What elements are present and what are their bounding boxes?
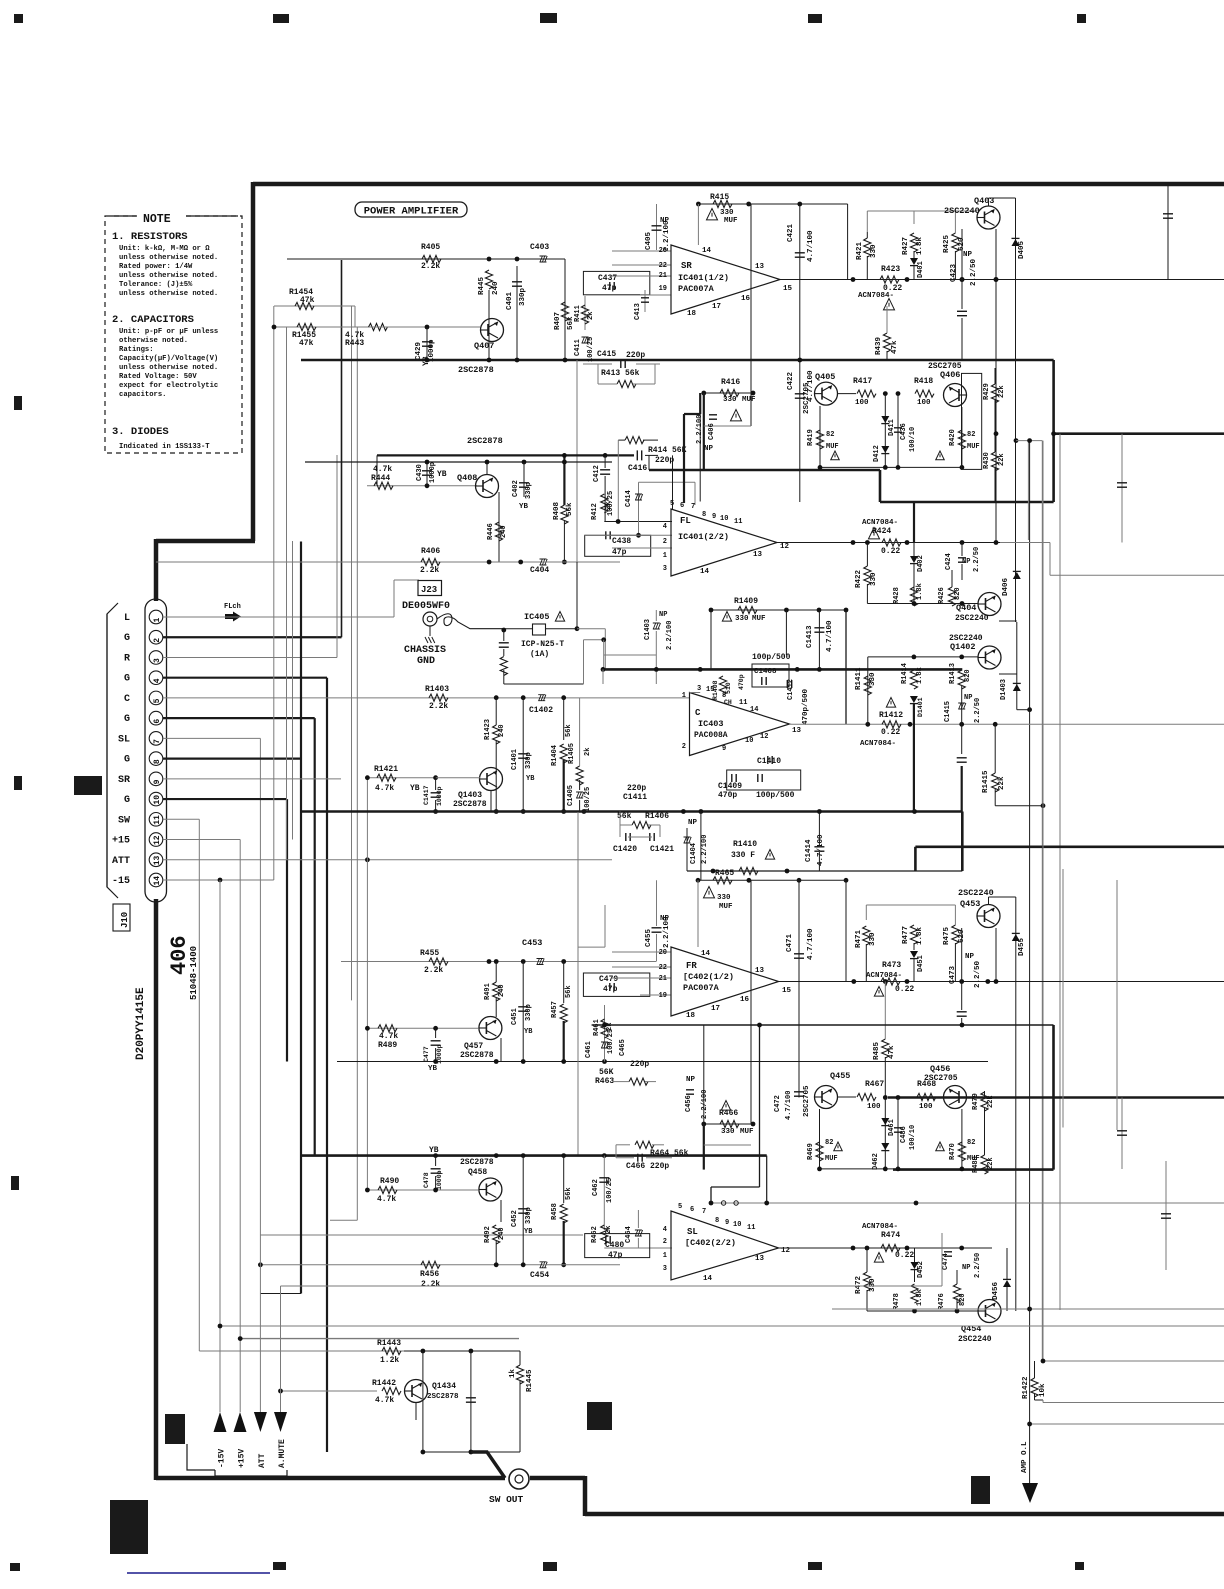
svg-text:56k: 56k (565, 1187, 573, 1200)
svg-text:C401: C401 (506, 291, 514, 310)
svg-text:15: 15 (783, 285, 793, 293)
svg-text:2SC2705: 2SC2705 (803, 382, 811, 414)
svg-text:R1411: R1411 (855, 667, 863, 690)
svg-text:C478: C478 (423, 1172, 430, 1188)
svg-text:FLch: FLch (224, 603, 241, 611)
svg-text:PAC007A: PAC007A (678, 284, 715, 294)
svg-text:otherwise noted.: otherwise noted. (119, 337, 188, 345)
svg-text:4.7k: 4.7k (379, 1032, 398, 1041)
svg-text:R428: R428 (893, 587, 901, 604)
svg-text:330p: 330p (525, 752, 533, 769)
svg-text:R1443: R1443 (377, 1339, 401, 1348)
svg-text:R407: R407 (554, 312, 562, 330)
svg-text:4.7k: 4.7k (377, 1195, 396, 1204)
svg-text:J23: J23 (421, 585, 437, 595)
svg-text:C1420: C1420 (613, 845, 637, 854)
svg-text:2.2k: 2.2k (421, 1280, 440, 1289)
svg-text:C455: C455 (645, 928, 653, 947)
svg-text:C438: C438 (612, 537, 631, 546)
svg-text:R413 56k: R413 56k (601, 369, 640, 378)
svg-text:YB: YB (428, 1065, 438, 1073)
svg-text:56k: 56k (565, 724, 573, 737)
svg-text:0.22: 0.22 (881, 728, 900, 737)
svg-text:SL: SL (687, 1227, 698, 1237)
svg-text:4.7/100: 4.7/100 (826, 620, 834, 652)
svg-text:1. RESISTORS: 1. RESISTORS (112, 231, 188, 243)
svg-text:8: 8 (715, 1217, 719, 1225)
svg-text:C472: C472 (774, 1095, 782, 1112)
svg-text:R472: R472 (855, 1275, 863, 1294)
svg-text:1000p: 1000p (429, 462, 437, 483)
svg-text:R492: R492 (484, 1226, 492, 1243)
svg-text:13: 13 (755, 1255, 765, 1263)
svg-text:C486: C486 (900, 1126, 908, 1143)
svg-text:Q405: Q405 (815, 372, 835, 382)
svg-text:C414: C414 (625, 490, 633, 507)
svg-text:SW OUT: SW OUT (489, 1494, 524, 1505)
svg-text:[C402(2/2): [C402(2/2) (685, 1238, 736, 1248)
svg-text:IC403: IC403 (698, 719, 724, 729)
svg-text:4.7/100: 4.7/100 (817, 834, 825, 866)
svg-text:220p: 220p (626, 351, 645, 360)
svg-text:C1415: C1415 (944, 701, 952, 722)
svg-text:R1415: R1415 (982, 770, 990, 793)
svg-text:C1404: C1404 (690, 843, 698, 864)
svg-text:1.8k: 1.8k (916, 236, 924, 255)
svg-text:22k: 22k (987, 1095, 995, 1108)
svg-text:2SC2240: 2SC2240 (955, 614, 989, 623)
svg-text:NOTE: NOTE (143, 213, 171, 226)
svg-text:C480: C480 (605, 1241, 624, 1250)
svg-text:2k: 2k (584, 748, 592, 756)
svg-text:AMP O.L: AMP O.L (1021, 1441, 1029, 1473)
svg-text:R1414: R1414 (901, 663, 909, 684)
svg-text:2SC2240: 2SC2240 (944, 206, 980, 216)
svg-text:19: 19 (659, 285, 667, 293)
svg-text:2SC2878: 2SC2878 (467, 436, 503, 446)
svg-text:NP: NP (964, 694, 972, 702)
svg-text:18: 18 (687, 310, 697, 318)
svg-text:Unit: k-kΩ, M-MΩ or Ω: Unit: k-kΩ, M-MΩ or Ω (119, 245, 210, 253)
svg-text:1: 1 (682, 692, 686, 700)
svg-text:NP: NP (704, 445, 714, 453)
svg-text:R1408: R1408 (712, 680, 719, 700)
svg-text:2SC2240: 2SC2240 (949, 634, 983, 643)
svg-text:2: 2 (663, 538, 667, 546)
svg-text:MUF: MUF (967, 443, 980, 451)
svg-text:C430: C430 (416, 464, 424, 481)
svg-text:Q1402: Q1402 (950, 642, 976, 652)
svg-text:R446: R446 (487, 523, 495, 540)
svg-text:R444: R444 (371, 474, 390, 483)
svg-text:R463: R463 (595, 1077, 614, 1086)
svg-text:ACN7084-: ACN7084- (866, 972, 902, 980)
svg-text:R406: R406 (421, 547, 440, 556)
svg-text:R456: R456 (420, 1270, 439, 1279)
svg-text:2.2/100: 2.2/100 (701, 1090, 709, 1119)
svg-text:C1401: C1401 (511, 749, 519, 770)
svg-text:13: 13 (753, 551, 763, 559)
svg-text:82: 82 (967, 431, 975, 439)
svg-text:C411: C411 (574, 339, 582, 356)
svg-text:R1422: R1422 (1022, 1376, 1030, 1399)
svg-text:13: 13 (755, 967, 765, 975)
svg-text:R1421: R1421 (374, 765, 398, 774)
svg-text:R425: R425 (943, 234, 951, 253)
svg-text:D452: D452 (917, 1261, 925, 1278)
svg-text:2.2/100: 2.2/100 (666, 621, 674, 650)
svg-text:R423: R423 (881, 265, 900, 274)
svg-text:D1403: D1403 (1000, 679, 1008, 700)
svg-text:GND: GND (417, 656, 435, 667)
svg-text:C465: C465 (619, 1039, 627, 1056)
svg-text:R419: R419 (807, 429, 815, 446)
svg-text:expect for electrolytic: expect for electrolytic (119, 382, 218, 390)
svg-text:C: C (124, 694, 130, 705)
svg-text:2k: 2k (605, 1226, 613, 1234)
svg-text:Capacity(μF)/Voltage(V): Capacity(μF)/Voltage(V) (119, 355, 218, 363)
svg-text:NP: NP (688, 819, 698, 827)
svg-text:D401: D401 (917, 261, 925, 278)
svg-text:Tolerance: (J)±5%: Tolerance: (J)±5% (119, 281, 193, 289)
svg-text:100/10: 100/10 (909, 427, 917, 452)
svg-text:330p: 330p (525, 1004, 533, 1021)
svg-text:R408: R408 (553, 501, 561, 520)
svg-text:9: 9 (722, 745, 726, 753)
svg-text:47k: 47k (300, 296, 315, 305)
svg-text:6: 6 (690, 1206, 694, 1214)
svg-text:D462: D462 (872, 1153, 880, 1170)
svg-text:240: 240 (498, 724, 506, 737)
svg-text:240: 240 (500, 525, 508, 538)
svg-text:DE005WF0: DE005WF0 (402, 601, 450, 612)
svg-text:C1413: C1413 (806, 625, 814, 648)
svg-text:Q408: Q408 (457, 473, 477, 483)
svg-text:A.MUTE: A.MUTE (278, 1439, 287, 1468)
svg-text:C423: C423 (950, 263, 958, 282)
svg-text:C1403: C1403 (644, 619, 652, 640)
svg-text:C413: C413 (634, 303, 642, 320)
svg-text:unless otherwise noted.: unless otherwise noted. (119, 364, 218, 372)
svg-text:ICP-N25-T: ICP-N25-T (521, 640, 564, 649)
svg-text:SL: SL (118, 734, 130, 745)
svg-text:1.8k: 1.8k (916, 667, 924, 684)
svg-text:R462: R462 (591, 1226, 599, 1243)
svg-text:R414 56K: R414 56K (648, 446, 687, 455)
svg-text:IC401(1/2): IC401(1/2) (678, 273, 729, 283)
svg-text:SR: SR (118, 775, 130, 786)
svg-text:-15V: -15V (218, 1449, 227, 1468)
svg-text:2.2/100: 2.2/100 (663, 916, 671, 948)
svg-text:SW: SW (118, 815, 130, 826)
svg-text:1000p: 1000p (428, 339, 436, 362)
svg-text:R405: R405 (421, 243, 440, 252)
svg-text:4: 4 (663, 523, 667, 531)
svg-text:240: 240 (498, 984, 506, 997)
svg-text:C451: C451 (511, 1008, 519, 1025)
svg-text:6: 6 (153, 719, 162, 724)
svg-text:R476: R476 (938, 1293, 946, 1310)
svg-text:IC405: IC405 (524, 612, 550, 622)
svg-text:82: 82 (825, 1139, 833, 1147)
svg-text:R461: R461 (593, 1019, 601, 1036)
svg-text:Rated Voltage: 50V: Rated Voltage: 50V (119, 373, 197, 381)
svg-text:330p: 330p (525, 1207, 533, 1224)
svg-text:330: 330 (870, 244, 878, 258)
svg-text:0.22: 0.22 (881, 547, 900, 556)
svg-text:FL: FL (680, 516, 691, 526)
svg-text:1000p: 1000p (436, 786, 443, 806)
svg-text:2: 2 (663, 1238, 667, 1246)
svg-text:100: 100 (867, 1103, 881, 1111)
svg-text:R421: R421 (856, 241, 864, 260)
svg-text:R429: R429 (983, 383, 991, 400)
svg-text:R1445: R1445 (526, 1369, 534, 1392)
svg-text:12: 12 (780, 543, 790, 551)
svg-text:2SC2705: 2SC2705 (924, 1074, 958, 1083)
svg-text:240: 240 (498, 1227, 506, 1240)
svg-text:11: 11 (747, 1224, 755, 1232)
svg-text:2SC2240: 2SC2240 (958, 1335, 992, 1344)
svg-text:Q1434: Q1434 (432, 1382, 456, 1391)
svg-text:C406: C406 (708, 423, 716, 440)
svg-text:12: 12 (153, 835, 162, 845)
svg-text:240: 240 (492, 281, 500, 295)
svg-text:330: 330 (869, 672, 877, 686)
svg-text:C412: C412 (593, 465, 601, 482)
svg-text:MUF: MUF (719, 903, 733, 911)
svg-text:C477: C477 (423, 1046, 430, 1062)
svg-text:0.22: 0.22 (895, 985, 914, 994)
svg-text:10: 10 (745, 737, 753, 745)
svg-text:R471: R471 (855, 929, 863, 948)
svg-text:ACN7084-: ACN7084- (860, 740, 896, 748)
svg-text:Q457: Q457 (464, 1042, 483, 1051)
svg-text:R458: R458 (551, 1203, 559, 1220)
svg-text:Q406: Q406 (940, 370, 960, 380)
svg-text:18: 18 (686, 1012, 696, 1020)
svg-text:10k: 10k (1039, 1383, 1047, 1397)
svg-text:unless otherwise noted.: unless otherwise noted. (119, 272, 218, 280)
svg-text:56k: 56k (565, 985, 573, 998)
svg-text:2.2/50: 2.2/50 (974, 698, 982, 723)
svg-text:8: 8 (702, 511, 706, 519)
svg-text:100/25: 100/25 (607, 1029, 615, 1054)
svg-text:22k: 22k (998, 385, 1006, 398)
svg-text:R465: R465 (715, 869, 734, 878)
svg-text:4: 4 (663, 1226, 667, 1234)
svg-text:R412: R412 (591, 503, 599, 520)
svg-text:14: 14 (701, 950, 711, 958)
svg-text:R480: R480 (972, 1156, 980, 1173)
svg-text:14: 14 (153, 876, 162, 886)
svg-text:R420: R420 (949, 429, 957, 446)
svg-text:R415: R415 (710, 193, 729, 202)
svg-text:510: 510 (725, 682, 732, 694)
svg-text:R1409: R1409 (734, 597, 758, 606)
svg-text:Q458: Q458 (468, 1168, 487, 1177)
svg-text:82: 82 (826, 431, 834, 439)
svg-text:R478: R478 (893, 1293, 901, 1310)
svg-text:470p/500: 470p/500 (802, 688, 810, 725)
svg-text:1000p: 1000p (436, 1170, 443, 1190)
svg-text:11: 11 (734, 518, 742, 526)
svg-text:SR: SR (681, 261, 692, 271)
svg-text:13: 13 (153, 855, 162, 865)
svg-text:2.2/100: 2.2/100 (701, 835, 709, 864)
svg-text:R1442: R1442 (372, 1379, 396, 1388)
svg-text:C471: C471 (786, 933, 794, 952)
svg-text:R426: R426 (938, 587, 946, 604)
svg-text:C1405: C1405 (567, 785, 575, 806)
svg-text:C452: C452 (511, 1210, 519, 1227)
svg-text:9: 9 (712, 513, 716, 521)
svg-text:330: 330 (721, 1128, 735, 1136)
svg-text:C429: C429 (415, 341, 423, 360)
svg-text:R427: R427 (902, 237, 910, 255)
svg-text:D405: D405 (1018, 240, 1026, 259)
svg-text:L: L (124, 613, 130, 624)
svg-text:C466 220p: C466 220p (626, 1162, 669, 1171)
svg-text:C436: C436 (900, 423, 908, 440)
svg-text:11: 11 (739, 699, 747, 707)
svg-text:820: 820 (964, 669, 972, 682)
svg-text:51048-1400: 51048-1400 (189, 946, 199, 1000)
svg-text:330p: 330p (519, 287, 527, 306)
svg-text:47p: 47p (612, 548, 627, 557)
svg-text:C1411: C1411 (623, 793, 647, 802)
svg-text:MUF: MUF (724, 217, 738, 225)
svg-text:7: 7 (153, 739, 162, 744)
svg-text:R1423: R1423 (484, 719, 492, 740)
svg-text:10: 10 (733, 1221, 741, 1229)
svg-text:C453: C453 (522, 938, 542, 948)
svg-text:NP: NP (686, 1076, 696, 1084)
svg-text:13: 13 (755, 263, 765, 271)
svg-text:330 F: 330 F (731, 851, 755, 860)
svg-text:R417: R417 (853, 377, 872, 386)
svg-text:capacitors.: capacitors. (119, 391, 166, 399)
svg-text:2SC2878: 2SC2878 (458, 365, 494, 375)
svg-text:3: 3 (663, 565, 667, 573)
svg-text:C464: C464 (625, 1226, 633, 1243)
svg-text:C1412: C1412 (787, 679, 795, 700)
svg-text:100: 100 (917, 399, 931, 407)
svg-text:C1409: C1409 (718, 782, 742, 791)
svg-text:R439: R439 (875, 336, 883, 355)
svg-text:14: 14 (702, 247, 712, 255)
svg-text:R: R (124, 653, 130, 664)
svg-text:330: 330 (723, 396, 737, 404)
svg-text:R445: R445 (478, 276, 486, 295)
svg-text:22: 22 (659, 262, 667, 270)
svg-text:1.2k: 1.2k (380, 1356, 399, 1365)
svg-text:0.22: 0.22 (895, 1251, 914, 1260)
svg-text:7: 7 (702, 1208, 706, 1216)
svg-text:100p/500: 100p/500 (756, 791, 795, 800)
svg-text:CH: CH (724, 699, 732, 706)
svg-text:2: 2 (153, 638, 162, 643)
svg-text:C1417: C1417 (423, 785, 430, 805)
svg-text:2k: 2k (587, 312, 595, 320)
svg-text:R443: R443 (345, 339, 364, 348)
svg-text:47p: 47p (608, 1251, 623, 1260)
svg-text:G: G (124, 633, 130, 644)
svg-text:C415: C415 (597, 350, 616, 359)
svg-text:20: 20 (659, 949, 667, 957)
svg-text:2: 2 (682, 743, 686, 751)
svg-text:9: 9 (725, 1219, 729, 1227)
svg-text:C437: C437 (598, 274, 617, 283)
svg-text:330: 330 (717, 894, 731, 902)
svg-text:R1404: R1404 (551, 745, 559, 766)
svg-text:220p: 220p (655, 456, 674, 465)
svg-text:C424: C424 (945, 553, 953, 570)
svg-text:R489: R489 (378, 1041, 397, 1050)
svg-text:R1413: R1413 (949, 663, 957, 684)
svg-text:C1421: C1421 (650, 845, 674, 854)
svg-text:330: 330 (869, 1278, 877, 1292)
svg-text:13: 13 (792, 727, 802, 735)
svg-text:19: 19 (659, 992, 667, 1000)
svg-text:Q456: Q456 (930, 1064, 950, 1074)
svg-text:D412: D412 (873, 445, 881, 462)
svg-text:2SC2878: 2SC2878 (460, 1051, 494, 1060)
svg-text:C454: C454 (530, 1271, 549, 1280)
svg-text:2SC2878: 2SC2878 (460, 1158, 494, 1167)
svg-text:Q404: Q404 (956, 603, 976, 613)
svg-text:56K: 56K (599, 1068, 614, 1077)
svg-text:2.2/50: 2.2/50 (974, 1253, 982, 1278)
svg-text:R411: R411 (574, 305, 582, 322)
svg-text:220p: 220p (627, 784, 646, 793)
svg-text:100/25: 100/25 (606, 1178, 614, 1203)
svg-text:YB: YB (524, 1028, 533, 1036)
svg-text:330: 330 (869, 932, 877, 946)
svg-text:100/10: 100/10 (909, 1125, 917, 1150)
svg-text:1: 1 (663, 1252, 667, 1260)
svg-text:R477: R477 (902, 926, 910, 944)
svg-text:MUF: MUF (740, 1128, 754, 1136)
svg-text:D1401: D1401 (917, 697, 924, 717)
svg-text:2.2/50: 2.2/50 (973, 547, 981, 572)
svg-text:R479: R479 (972, 1093, 980, 1110)
svg-text:10: 10 (720, 515, 728, 523)
svg-text:R1410: R1410 (733, 840, 757, 849)
svg-text:3: 3 (153, 658, 162, 663)
svg-text:YB: YB (526, 775, 535, 783)
svg-text:R430: R430 (983, 452, 991, 469)
svg-text:C1402: C1402 (529, 706, 553, 715)
svg-text:4.7/100: 4.7/100 (807, 928, 815, 960)
svg-text:8: 8 (153, 759, 162, 764)
svg-text:D451: D451 (917, 955, 925, 972)
svg-text:330: 330 (735, 615, 749, 623)
svg-text:Rated power: 1/4W: Rated power: 1/4W (119, 263, 193, 271)
svg-text:POWER AMPLIFIER: POWER AMPLIFIER (364, 206, 459, 218)
svg-text:2.2/50: 2.2/50 (970, 258, 978, 286)
svg-text:R485: R485 (873, 1041, 881, 1060)
svg-text:-15: -15 (112, 876, 130, 887)
svg-text:C462: C462 (592, 1179, 600, 1196)
svg-text:R1412: R1412 (879, 711, 903, 720)
svg-text:D456: D456 (992, 1281, 1000, 1300)
svg-text:2SC2878: 2SC2878 (427, 1393, 459, 1401)
svg-text:20: 20 (659, 247, 667, 255)
svg-text:R457: R457 (551, 1001, 559, 1018)
svg-text:100: 100 (855, 399, 869, 407)
svg-text:+15V: +15V (238, 1449, 247, 1468)
